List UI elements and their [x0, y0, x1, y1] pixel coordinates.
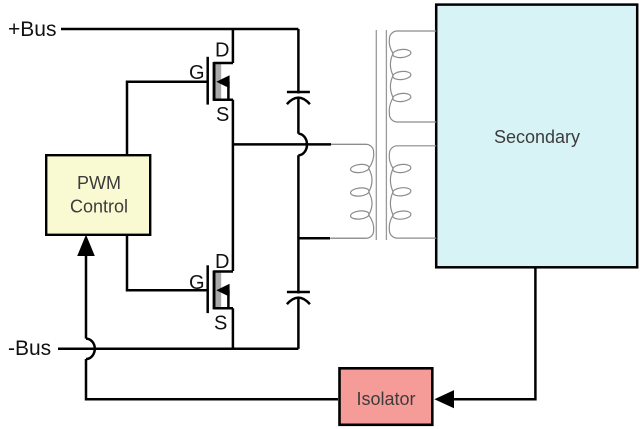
inductor secondary winding bottom T1 [389, 146, 436, 238]
block Secondary [436, 5, 637, 268]
svg-text:PWM: PWM [77, 173, 121, 193]
block Isolator [340, 368, 433, 425]
wire Q1 gate to PWM control [127, 82, 208, 154]
svg-text:S: S [214, 312, 227, 334]
wire -Bus rail [58, 348, 298, 351]
svg-text:Control: Control [70, 197, 128, 217]
inductor secondary winding top T1 [389, 31, 436, 122]
wire +Bus to Q1 drain [232, 29, 235, 63]
svg-text:+Bus: +Bus [8, 18, 56, 41]
wire isolator to PWM control [85, 255, 88, 339]
wire hop over -Bus [86, 339, 95, 359]
wire Q2 source to -Bus [232, 308, 235, 349]
wire to isolator [86, 359, 338, 399]
arrow into PWM control (from isolator) [77, 235, 95, 256]
wire PWM control to Q2 gate [127, 235, 208, 290]
svg-text:D: D [215, 251, 229, 273]
svg-text:S: S [216, 104, 229, 126]
capacitor C1 (top) [287, 91, 310, 94]
transformer core [375, 30, 377, 240]
svg-text:Secondary: Secondary [494, 127, 580, 147]
wire hop over midpoint wire [298, 134, 307, 156]
svg-text:G: G [189, 272, 205, 294]
wire thin lead to primary top [331, 143, 366, 145]
wire +Bus rail [61, 28, 298, 31]
wire cap midpoint to transformer primary (bottom) [298, 237, 330, 240]
inductor primary winding T1 [331, 144, 374, 238]
arrow into isolator (from secondary) [434, 390, 454, 408]
block PWM Control [46, 155, 150, 235]
svg-text:Isolator: Isolator [356, 389, 415, 409]
wire C1 to hop [297, 98, 300, 134]
wire hop to cap midpoint [297, 155, 300, 293]
svg-text:D: D [215, 40, 229, 62]
wire secondary to isolator [453, 267, 535, 399]
svg-text:-Bus: -Bus [8, 337, 51, 360]
transistor Q1 (N-MOSFET) [206, 57, 209, 105]
wire midpoint to transformer primary (top) [233, 143, 331, 146]
wire +Bus to capacitor branch [297, 29, 300, 94]
wire Q1 source to Q2 drain [232, 100, 235, 271]
wire C2 to -Bus [297, 298, 300, 349]
capacitor C2 (bottom) [287, 291, 310, 294]
transistor Q2 (N-MOSFET) [206, 265, 209, 313]
